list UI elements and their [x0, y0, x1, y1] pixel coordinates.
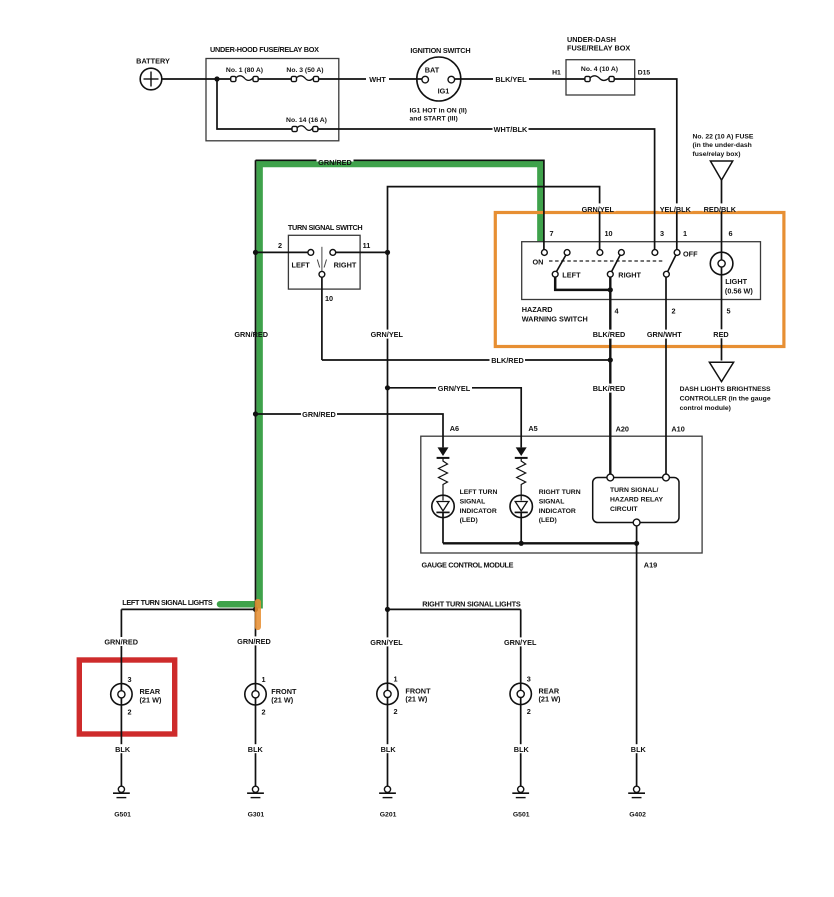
junction dot turn signal pin 2 on GRN/RED [253, 250, 258, 255]
wire label GRN/RED (left front drop) [236, 636, 272, 646]
wire label GRN/WHT (hazard pin 2) [646, 330, 683, 340]
svg-text:BLK: BLK [115, 745, 131, 754]
svg-text:No. 14 (16 A): No. 14 (16 A) [286, 117, 327, 124]
svg-text:BLK/YEL: BLK/YEL [495, 75, 527, 84]
svg-text:INDICATOR: INDICATOR [539, 508, 576, 515]
svg-text:IGNITION SWITCH: IGNITION SWITCH [410, 46, 470, 55]
svg-text:CONTROLLER (in the gauge: CONTROLLER (in the gauge [680, 396, 771, 403]
svg-text:BLK: BLK [381, 745, 397, 754]
ground G301 (left front) [247, 786, 264, 818]
svg-text:G301: G301 [248, 812, 265, 819]
wire label GRN/RED (left rear drop) [103, 637, 139, 647]
wire ground bus in gauge module [443, 542, 637, 544]
svg-text:control module): control module) [680, 405, 731, 412]
wire GRN/RED branch to gauge A6 [256, 414, 444, 447]
wire right turn signal lights horizontal [388, 608, 521, 610]
resistor R1 [439, 458, 448, 501]
svg-text:IG1: IG1 [438, 87, 450, 96]
svg-text:G501: G501 [513, 812, 530, 819]
svg-text:D15: D15 [638, 70, 651, 77]
wire label YEL/BLK (to hazard pin 1) [659, 203, 693, 214]
bulb left rear turn signal light (21 W) [111, 675, 162, 717]
svg-text:HAZARD RELAY: HAZARD RELAY [610, 497, 663, 504]
turn signal switch internals [278, 241, 370, 303]
wire GRN/WHT hazard pin 2 down to relay A10 [665, 277, 667, 474]
svg-text:GRN/YEL: GRN/YEL [438, 384, 471, 393]
wire BLK/RED horizontal to hazard pin 4 line [322, 359, 610, 361]
svg-text:WHT: WHT [369, 75, 386, 84]
junction dot ground bus at relay drop [634, 541, 639, 546]
svg-text:(0.56 W): (0.56 W) [725, 287, 754, 296]
svg-text:GRN/YEL: GRN/YEL [371, 330, 404, 339]
svg-text:1: 1 [262, 675, 266, 684]
svg-text:RED/BLK: RED/BLK [704, 205, 737, 214]
svg-text:(21 W): (21 W) [271, 695, 293, 704]
hazard warning switch box [522, 242, 761, 324]
LED left turn signal indicator [432, 489, 498, 543]
svg-text:A6: A6 [450, 424, 459, 433]
svg-text:BLK/RED: BLK/RED [593, 384, 625, 393]
wire label GRN/YEL (pin 11 vertical) [369, 330, 405, 340]
svg-text:2: 2 [128, 708, 132, 717]
wire label BLK/RED (to A20) [592, 384, 628, 394]
wire label GRN/RED (left vertical) [234, 330, 268, 339]
junction dot hazard left/right blade link [608, 287, 613, 292]
junction dot turn signal pin 11 [385, 250, 390, 255]
wire RED/BLK from fuse 22 through hazard light to pin 5 [721, 180, 723, 360]
svg-text:RIGHT TURN SIGNAL LIGHTS: RIGHT TURN SIGNAL LIGHTS [422, 599, 521, 608]
svg-text:SIGNAL: SIGNAL [460, 498, 486, 505]
svg-text:GRN/YEL: GRN/YEL [582, 205, 615, 214]
bulb right rear turn signal light (21 W) [510, 675, 561, 717]
wire WHT/BLK from fuse 14 to hazard pin 3 [318, 129, 655, 250]
svg-text:(21 W): (21 W) [405, 695, 427, 704]
wire label BLK (left rear) [115, 744, 131, 754]
svg-text:7: 7 [549, 229, 553, 238]
svg-text:GRN/YEL: GRN/YEL [504, 638, 537, 647]
wire label BLK/RED (horizontal) [490, 356, 526, 366]
svg-text:TURN SIGNAL/: TURN SIGNAL/ [610, 487, 658, 494]
svg-text:fuse/relay box): fuse/relay box) [693, 151, 741, 158]
bulb right front turn signal light (21 W) [377, 675, 431, 717]
junction dot battery branch [214, 76, 219, 81]
wire GRN/RED drop to left rear bulb and ground G501 [120, 609, 122, 786]
svg-text:No. 3 (50 A): No. 3 (50 A) [286, 67, 323, 74]
battery B1 [136, 57, 170, 90]
svg-text:A19: A19 [644, 561, 657, 570]
svg-text:FUSE/RELAY BOX: FUSE/RELAY BOX [567, 44, 630, 53]
svg-text:GRN/RED: GRN/RED [104, 638, 138, 647]
svg-text:WARNING SWITCH: WARNING SWITCH [522, 315, 588, 324]
svg-text:OFF: OFF [683, 250, 698, 259]
diode D1 (left indicator) [437, 447, 450, 458]
svg-text:DASH LIGHTS BRIGHTNESS: DASH LIGHTS BRIGHTNESS [680, 386, 771, 393]
wire label GRN/RED (top run) [317, 156, 354, 167]
svg-text:2: 2 [394, 707, 398, 716]
ground G201 (right front) [379, 786, 397, 818]
green highlight stub at left turn signal lights junction [220, 601, 258, 608]
ground G501 (left rear) [113, 786, 131, 818]
wire label GRN/YEL (to hazard pin 10) [580, 203, 616, 214]
orange highlight box around hazard warning switch [495, 213, 784, 347]
svg-text:5: 5 [726, 307, 730, 316]
wire label GRN/RED (branch to A6) [301, 410, 337, 420]
junction dot BLK/RED at hazard pin 4 wire [608, 357, 613, 362]
svg-text:GAUGE CONTROL MODULE: GAUGE CONTROL MODULE [422, 561, 514, 570]
svg-text:GRN/RED: GRN/RED [318, 158, 352, 167]
wire label WHT [366, 75, 389, 84]
svg-text:and START (III): and START (III) [410, 116, 458, 123]
wire turn signal switch pin 10 (BLK/RED) [321, 277, 323, 360]
svg-text:H1: H1 [552, 70, 561, 77]
svg-text:ON: ON [533, 258, 544, 267]
svg-text:1: 1 [683, 229, 687, 238]
fuse No. 3 (50 A) [286, 67, 323, 82]
wire label GRN/YEL (right rear drop) [502, 637, 538, 647]
wire label BLK (right front) [380, 744, 396, 754]
wire label BLK (right rear) [513, 744, 529, 754]
gauge control module box [421, 436, 702, 569]
svg-text:BAT: BAT [425, 66, 440, 75]
svg-text:BLK: BLK [248, 745, 264, 754]
svg-text:(LED): (LED) [460, 517, 478, 524]
svg-text:(21 W): (21 W) [140, 695, 162, 704]
svg-text:UNDER-HOOD FUSE/RELAY BOX: UNDER-HOOD FUSE/RELAY BOX [210, 45, 319, 54]
wire battery branch to fuse 14 [217, 79, 292, 129]
node label LEFT TURN SIGNAL LIGHTS [121, 598, 214, 607]
svg-text:2: 2 [262, 708, 266, 717]
svg-text:(21 W): (21 W) [539, 695, 561, 704]
hazard warning switch internals [533, 250, 699, 290]
svg-text:2: 2 [671, 307, 675, 316]
wire label BLK/RED (hazard pin 4) [592, 330, 628, 340]
svg-text:10: 10 [325, 294, 333, 303]
svg-text:BLK/RED: BLK/RED [593, 330, 625, 339]
wire label RED (hazard pin 5) [711, 329, 731, 339]
svg-text:BLK: BLK [514, 745, 530, 754]
svg-text:LEFT: LEFT [292, 260, 311, 269]
svg-text:RIGHT TURN: RIGHT TURN [539, 489, 581, 496]
fuse No. 14 (16 A) [286, 117, 327, 132]
svg-text:GRN/RED: GRN/RED [237, 637, 271, 646]
svg-text:HAZARD: HAZARD [522, 305, 553, 314]
fuse No. 22 (10 A) symbol (triangle) [693, 134, 754, 181]
svg-text:No. 22 (10 A) FUSE: No. 22 (10 A) FUSE [693, 134, 754, 141]
svg-text:WHT/BLK: WHT/BLK [494, 125, 528, 134]
wire GRN/RED top run to hazard pin 7 [256, 160, 544, 249]
dash lights brightness controller symbol (triangle) [680, 362, 771, 412]
wire label BLK/YEL [493, 75, 529, 84]
svg-text:(in the under-dash: (in the under-dash [693, 142, 752, 149]
under-dash fuse/relay box [566, 35, 635, 95]
svg-text:INDICATOR: INDICATOR [460, 508, 497, 515]
svg-text:GRN/RED: GRN/RED [234, 330, 268, 339]
svg-text:GRN/YEL: GRN/YEL [370, 638, 403, 647]
wire battery feed to ignition and under-dash box [162, 79, 677, 250]
wire GRN/YEL drop to right rear bulb and ground G501 [520, 609, 522, 786]
svg-text:G402: G402 [629, 812, 646, 819]
turn signal switch box [288, 223, 363, 289]
svg-text:RIGHT: RIGHT [334, 260, 357, 269]
wire label BLK (relay ground) [630, 744, 646, 754]
svg-text:A20: A20 [616, 425, 629, 434]
wire turn signal switch pin 11 [336, 251, 388, 253]
wire label GRN/YEL (right front drop) [369, 637, 405, 647]
wire GRN/YEL vertical to right turn lights and front-right bulb [387, 252, 389, 786]
ignition switch SW1 [410, 46, 471, 123]
svg-text:BLK: BLK [631, 745, 647, 754]
svg-text:LEFT: LEFT [562, 271, 581, 280]
svg-text:BLK/RED: BLK/RED [491, 356, 523, 365]
fuse No. 1 (80 A) [226, 67, 263, 82]
wire GRN/RED left vertical to left turn lights and front-left bulb [255, 160, 257, 786]
svg-text:LEFT TURN: LEFT TURN [460, 489, 498, 496]
svg-text:CIRCUIT: CIRCUIT [610, 506, 638, 513]
svg-text:2: 2 [278, 241, 282, 250]
junction dot GRN/YEL branch to A5 [385, 385, 390, 390]
orange highlight stub toward front-left bulb [255, 602, 261, 627]
svg-text:(LED): (LED) [539, 517, 557, 524]
wire GRN/YEL branch to gauge A5 [388, 388, 522, 448]
wire label BLK (left front) [247, 744, 263, 754]
junction dot left turn signal lights [253, 607, 258, 612]
svg-text:6: 6 [728, 229, 732, 238]
svg-text:G501: G501 [114, 812, 131, 819]
resistor R2 [517, 458, 526, 501]
wire label WHT/BLK [493, 125, 529, 135]
wire label GRN/YEL (branch to A5) [436, 383, 472, 393]
svg-text:2: 2 [527, 707, 531, 716]
turn signal/hazard relay circuit U1 [593, 474, 679, 526]
diode D2 (right indicator) [515, 447, 528, 458]
hazard indicator light (0.56 W) [710, 252, 753, 295]
fuse No. 4 (10 A) [581, 66, 618, 82]
wire turn signal switch pin 2 [256, 251, 308, 253]
wire label RED/BLK (to hazard pin 6) [703, 203, 738, 214]
svg-text:3: 3 [128, 675, 132, 684]
junction dot ground bus at right LED [519, 541, 524, 546]
wire GRN/YEL from turn signal pin 11 up and over to hazard pin 10 [388, 187, 600, 253]
svg-text:RIGHT: RIGHT [618, 271, 641, 280]
green highlight: GRN/RED left turn circuit trace [260, 164, 541, 609]
svg-text:IG1 HOT in ON (II): IG1 HOT in ON (II) [410, 108, 467, 115]
svg-text:No. 4 (10 A): No. 4 (10 A) [581, 66, 618, 73]
svg-text:YEL/BLK: YEL/BLK [660, 205, 692, 214]
svg-text:GRN/RED: GRN/RED [302, 410, 336, 419]
under-hood fuse/relay box [206, 45, 339, 141]
svg-text:1: 1 [394, 675, 398, 684]
wire relay output A19 to ground G402 [636, 526, 638, 786]
junction dot right turn signal lights [385, 607, 390, 612]
red highlight box around left rear turn signal light [79, 660, 174, 734]
svg-text:GRN/WHT: GRN/WHT [647, 330, 682, 339]
svg-text:11: 11 [363, 241, 371, 250]
junction dot GRN/RED branch to A6 [253, 411, 258, 416]
ground G402 (relay) [628, 786, 646, 818]
svg-text:SIGNAL: SIGNAL [539, 498, 565, 505]
svg-text:G201: G201 [380, 812, 397, 819]
svg-text:10: 10 [604, 229, 612, 238]
ground G501 (right rear) [512, 786, 529, 818]
bulb left front turn signal light (21 W) [245, 675, 297, 717]
svg-text:BATTERY: BATTERY [136, 57, 170, 66]
svg-text:A5: A5 [528, 424, 537, 433]
svg-text:RED: RED [713, 330, 728, 339]
LED right turn signal indicator [510, 489, 581, 543]
svg-text:LIGHT: LIGHT [725, 277, 747, 286]
wire BLK/RED hazard pin 4 down to relay A20 [609, 277, 611, 474]
svg-text:No. 1 (80 A): No. 1 (80 A) [226, 67, 263, 74]
wire left turn signal lights horizontal [121, 608, 255, 610]
svg-text:A10: A10 [671, 425, 684, 434]
svg-text:3: 3 [660, 229, 664, 238]
svg-text:LEFT TURN SIGNAL LIGHTS: LEFT TURN SIGNAL LIGHTS [122, 598, 213, 607]
svg-text:3: 3 [527, 675, 531, 684]
svg-text:TURN SIGNAL SWITCH: TURN SIGNAL SWITCH [288, 223, 363, 232]
